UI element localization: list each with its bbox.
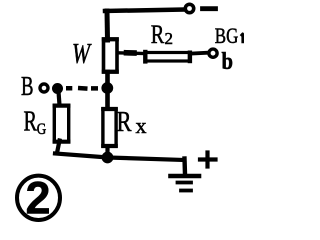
junction node on main wire <box>102 83 113 94</box>
dashed wire from B branch to wiper node <box>66 86 98 91</box>
wire RG top stub <box>59 92 60 106</box>
svg-text:W: W <box>72 39 92 70</box>
svg-text:B: B <box>21 71 34 101</box>
potentiometer W body <box>104 39 118 72</box>
svg-text:R: R <box>151 20 165 49</box>
plus polarity label <box>200 157 216 161</box>
svg-text:2: 2 <box>165 29 174 48</box>
terminal b (open circle) <box>209 49 217 57</box>
resistor Rx body <box>103 109 116 146</box>
ground symbol <box>171 174 200 179</box>
wire top rail <box>105 10 183 12</box>
terminal top-right (open circle) <box>185 4 193 12</box>
wire W wiper tap to R2 <box>118 51 145 55</box>
svg-text:x: x <box>136 113 147 138</box>
svg-text:R: R <box>117 106 133 138</box>
wire W bottom through node to Rx top <box>105 72 110 108</box>
wire Rx bottom stub <box>105 147 109 158</box>
svg-text:b: b <box>222 49 234 75</box>
wire from W top to top-left corner <box>105 11 111 40</box>
resistor RG body <box>54 106 68 142</box>
junction dot on bottom rail <box>102 152 113 163</box>
svg-text:R: R <box>24 106 38 138</box>
wire bottom rail <box>55 154 184 161</box>
resistor R2 body <box>146 53 190 62</box>
svg-text:2: 2 <box>26 173 51 224</box>
minus polarity label <box>203 6 216 11</box>
svg-text:BG: BG <box>215 23 239 48</box>
wire R2 to terminal b <box>192 51 207 56</box>
wire down to ground <box>182 159 187 175</box>
terminal B (open circle) <box>40 84 48 92</box>
junction dot at B branch <box>53 84 63 94</box>
figure number: circled 2 <box>17 176 60 220</box>
svg-text:G: G <box>37 121 47 138</box>
wire RG bottom to bottom rail <box>57 141 60 154</box>
